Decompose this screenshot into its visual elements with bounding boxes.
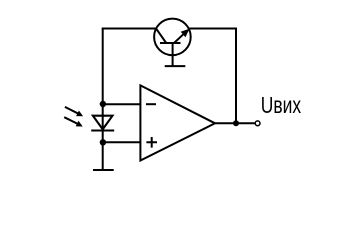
op-amp bbox=[140, 85, 215, 160]
cathode bar bbox=[91, 129, 114, 131]
wire: top feedback rail to transistor collector bbox=[102, 28, 157, 30]
wire: left vertical feedback riser bbox=[102, 29, 104, 105]
node: inverting input junction dot bbox=[100, 101, 106, 107]
diode triangle bbox=[93, 116, 113, 130]
wire: photodiode branch vertical bbox=[102, 103, 104, 171]
base bar bbox=[160, 42, 181, 44]
base lead bbox=[172, 43, 174, 67]
minus sign (inverting input) bbox=[146, 103, 156, 105]
photodiode bbox=[91, 116, 114, 131]
wire: non-inverting input bbox=[103, 141, 141, 143]
wire: right vertical drop to output node bbox=[235, 28, 237, 124]
collector lead line bbox=[156, 29, 166, 43]
transistor (in feedback loop) bbox=[154, 19, 191, 67]
light arrow 2 bbox=[64, 117, 83, 126]
svg-text:Uвих: Uвих bbox=[261, 92, 302, 118]
base terminal stub bar bbox=[165, 65, 186, 67]
common terminal stub bar (bottom) bbox=[93, 169, 114, 171]
wire: inverting input bbox=[103, 103, 141, 105]
plus sign (non-inverting input) bbox=[146, 137, 157, 148]
node: output junction dot bbox=[233, 120, 239, 126]
wire: op-amp output to terminal bbox=[215, 122, 255, 124]
node: non-inverting input junction dot bbox=[100, 139, 106, 145]
emitter lead line with arrow bbox=[174, 34, 184, 43]
wire: transistor emitter to right corner bbox=[188, 28, 237, 30]
output terminal (open circle) bbox=[255, 121, 260, 126]
light arrow 1 bbox=[65, 107, 83, 116]
